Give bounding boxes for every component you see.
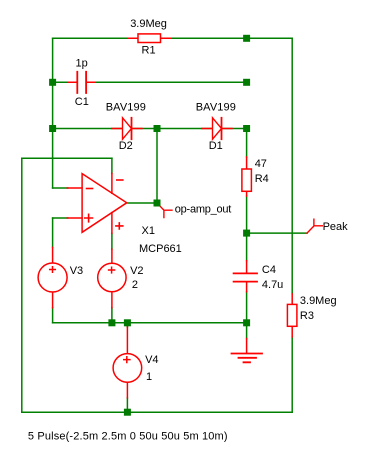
junction C4 bottom / ground — [243, 319, 250, 326]
voltage source V2 — [98, 249, 144, 308]
resistor R3 — [287, 294, 336, 337]
wire top rail — [53, 37, 293, 39]
svg-text:D2: D2 — [119, 140, 133, 152]
capacitor C1 — [68, 57, 95, 108]
junction diode row / R4 branch — [243, 125, 250, 132]
svg-text:5 Pulse(-2.5m 2.5m 0 50u 50u 5: 5 Pulse(-2.5m 2.5m 0 50u 50u 5m 10m) — [28, 431, 228, 443]
svg-text:X1: X1 — [142, 225, 155, 237]
wire op-amp output — [128, 202, 160, 204]
diode D2 — [106, 101, 146, 152]
junction top rail / right rail branch — [243, 35, 250, 42]
junction left rail / C1 row — [49, 79, 56, 86]
wire C1 row left — [53, 81, 69, 83]
voltage source V3 — [38, 247, 83, 307]
wire R4 bottom — [246, 196, 248, 233]
wire V2 top — [111, 233, 113, 249]
junction V4 top — [124, 319, 131, 326]
wire feedback vertical — [156, 129, 158, 204]
svg-text:BAV199: BAV199 — [196, 101, 236, 113]
capacitor C4 — [234, 261, 284, 292]
svg-text:1p: 1p — [76, 57, 88, 69]
wire right rail lower — [291, 337, 293, 412]
svg-text:V4: V4 — [145, 354, 158, 366]
wire C4 top — [246, 233, 248, 261]
svg-text:47: 47 — [255, 158, 267, 170]
wire op-amp plus input — [53, 217, 68, 219]
svg-text:V3: V3 — [70, 265, 83, 277]
junction right rail / C1 row — [243, 79, 250, 86]
junction bottom rail / V4 — [124, 409, 131, 416]
resistor R4 — [242, 157, 269, 196]
resistor R1 — [128, 18, 171, 56]
wire y=158 row — [22, 157, 112, 159]
junction left rail / diode row — [49, 125, 56, 132]
wire V4 bottom — [126, 398, 128, 412]
wire ground stem green — [246, 323, 248, 339]
wire op-amp minus input — [53, 187, 68, 189]
svg-text:C4: C4 — [262, 264, 276, 276]
junction diode row / feedback vertical — [154, 125, 161, 132]
wire bottom rail — [22, 411, 292, 413]
svg-text:Peak: Peak — [323, 221, 349, 233]
node op-amp_out flag — [160, 203, 232, 217]
wire left outer rail — [21, 158, 23, 412]
node Peak flag — [307, 219, 348, 233]
wire R4 top — [246, 129, 248, 158]
svg-text:V2: V2 — [130, 265, 143, 277]
junction Peak row / C4 branch — [243, 230, 250, 237]
svg-text:D1: D1 — [209, 140, 223, 152]
junction op-amp output — [154, 200, 161, 207]
svg-text:3.9Meg: 3.9Meg — [300, 295, 337, 307]
wire C1 row right — [94, 81, 246, 83]
svg-text:R4: R4 — [255, 173, 269, 185]
wire bottom row y=322 — [53, 322, 247, 324]
svg-text:MCP661: MCP661 — [139, 243, 182, 255]
svg-text:2: 2 — [132, 279, 138, 291]
wire C4 bottom — [246, 292, 248, 323]
svg-text:3.9Meg: 3.9Meg — [130, 18, 167, 30]
svg-text:4.7u: 4.7u — [262, 279, 283, 291]
diode D1 — [196, 101, 236, 152]
op-amp X1 — [67, 173, 181, 255]
wire diode row — [53, 128, 247, 130]
svg-text:BAV199: BAV199 — [106, 101, 146, 113]
junction V2 bottom — [108, 319, 115, 326]
wire right rail upper — [291, 38, 293, 294]
wire V2 bottom — [111, 308, 113, 323]
svg-text:R1: R1 — [142, 44, 156, 56]
wire V3 top — [52, 218, 54, 247]
ground — [232, 339, 263, 363]
wire Peak row — [247, 232, 307, 234]
voltage source V4 — [113, 327, 158, 398]
svg-text:1: 1 — [146, 371, 152, 383]
wire op-amp top power stub green — [111, 158, 113, 173]
wire left rail — [52, 38, 54, 188]
svg-text:R3: R3 — [300, 310, 314, 322]
wire V3 bottom — [52, 308, 54, 323]
wire V4 top — [126, 323, 128, 327]
svg-text:C1: C1 — [75, 96, 89, 108]
svg-text:op-amp_out: op-amp_out — [175, 203, 232, 215]
